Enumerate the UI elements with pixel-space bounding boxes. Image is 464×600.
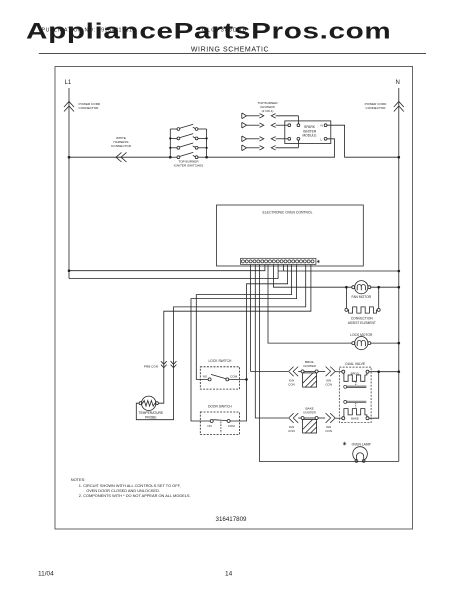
wire EOC to lock and door switch COM	[230, 265, 288, 422]
node bank rail row2 left	[169, 137, 171, 139]
connector IGN CON left of bake igniter	[289, 413, 299, 423]
connector PRB CON chevrons	[161, 361, 167, 368]
spark igniter module U1	[285, 121, 331, 144]
wire L1 vertical line	[68, 88, 70, 279]
igniter row 1	[242, 113, 299, 124]
resistor convection assist element	[345, 287, 380, 313]
wire module N to N line	[327, 125, 399, 157]
top burner igniters rows	[242, 113, 299, 151]
coil broil valve solenoid	[342, 370, 369, 381]
label temperature probe	[138, 411, 163, 419]
lamp oven lamp	[353, 447, 368, 463]
header publication text	[42, 28, 248, 34]
svg-text:LOCK SWITCH: LOCK SWITCH	[208, 359, 232, 363]
star mark oven lamp	[343, 442, 346, 446]
wire switch bank right rail	[206, 129, 208, 157]
wire EOC to lock motor	[268, 265, 352, 344]
svg-text:N: N	[396, 80, 400, 86]
label IGN CON left broil	[288, 379, 295, 387]
wire bake chevron to valve	[335, 417, 342, 419]
node bank rail row3 right	[206, 147, 208, 149]
svg-text:11/04: 11/04	[38, 571, 54, 578]
node valve right bus	[377, 370, 380, 373]
svg-text:WIRING SCHEMATIC: WIRING SCHEMATIC	[191, 47, 269, 54]
svg-text:CONNECTOR: CONNECTOR	[79, 106, 100, 110]
wire EOC to fan motor	[273, 265, 351, 288]
power cord connector right chevron	[394, 102, 404, 112]
svg-text:N: N	[321, 124, 323, 128]
node L1	[0, 0, 1, 1]
svg-text:PUBLICATION NO: 5995421981: PUBLICATION NO: 5995421981	[42, 28, 133, 34]
svg-text:CON: CON	[288, 429, 295, 433]
svg-text:OVEN LAMP: OVEN LAMP	[352, 442, 372, 446]
terminal strip of EOC	[241, 258, 316, 264]
svg-text:CONNECTOR: CONNECTOR	[111, 144, 132, 148]
svg-text:BROIL: BROIL	[351, 371, 360, 375]
wire EOC neutral feed to N line	[278, 265, 399, 272]
switch row 3	[170, 143, 206, 149]
node fan element left	[345, 286, 348, 289]
switch row 1	[170, 124, 206, 130]
svg-text:14: 14	[225, 571, 233, 578]
label IGN CON right broil	[325, 379, 332, 387]
power cord connector left chevron	[64, 102, 74, 112]
svg-text:COM: COM	[228, 424, 236, 428]
wire EOC to lock switch NO	[196, 265, 291, 380]
node N at spark module return	[398, 156, 401, 159]
igniter row 2	[242, 122, 288, 128]
node N at fan motor	[398, 286, 401, 289]
wire L1 branch 1 to EOC	[69, 265, 265, 271]
white harness connector chevrons	[116, 152, 127, 162]
motor M1 fan motor	[352, 281, 371, 294]
schematic frame	[55, 67, 413, 530]
connector IGN CON right of broil igniter	[326, 367, 336, 377]
label top burner igniter switches	[174, 160, 204, 168]
node bank rail row3 left	[169, 147, 171, 149]
svg-text:GLGF388DBB: GLGF388DBB	[202, 28, 247, 34]
bimetal arm bake	[344, 400, 367, 403]
wire EOC to oven lamp line	[259, 265, 398, 462]
heater bake igniter element	[298, 417, 325, 434]
svg-text:(2 OR 4): (2 OR 4)	[262, 109, 274, 113]
svg-text:ASSIST ELEMENT: ASSIST ELEMENT	[348, 321, 376, 325]
svg-text:CONVECTION: CONVECTION	[351, 316, 374, 320]
pin N terminal	[324, 124, 327, 127]
motor M2 lock motor	[352, 337, 371, 350]
svg-text:MODULE: MODULE	[302, 134, 317, 138]
wire L1 branch 2 to EOC	[69, 265, 278, 279]
svg-text:BAKE: BAKE	[351, 416, 359, 420]
igniter row 3	[242, 136, 288, 142]
switch row 4	[170, 152, 206, 158]
wire EOC to probe left lead	[136, 265, 305, 420]
switch S1 lock switch	[200, 367, 239, 389]
igniter row 4	[242, 140, 299, 150]
svg-text:NO: NO	[203, 375, 208, 379]
switch row 2	[170, 134, 206, 140]
wire N vertical line	[398, 88, 400, 461]
node bank left rail bottom	[169, 156, 172, 159]
pin L terminal	[324, 137, 327, 140]
svg-text:2. COMPONENTS WITH * DO NOT: 2. COMPONENTS WITH * DO NOT APPEAR ON AL…	[79, 493, 191, 498]
svg-text:L1: L1	[65, 80, 72, 86]
svg-text:PROBE: PROBE	[145, 415, 157, 419]
heater broil igniter element	[298, 370, 325, 387]
bimetal arm broil	[344, 385, 367, 388]
svg-text:COM: COM	[230, 375, 238, 379]
wire lock motor to N	[371, 342, 399, 344]
connector IGN CON left of broil igniter	[289, 367, 299, 377]
wire EOC to door switch NO	[191, 265, 297, 422]
svg-text:CONNECTOR: CONNECTOR	[366, 106, 387, 110]
label IGN CON right bake	[325, 425, 332, 433]
wire lock switch COM tap	[229, 378, 247, 380]
title underline	[39, 53, 426, 55]
label asterisk at strip	[317, 260, 320, 263]
node L1-branch junction	[68, 269, 71, 272]
label convection assist element	[348, 316, 376, 324]
node bank rail row2 right	[206, 137, 208, 139]
label bake igniter	[303, 407, 316, 415]
label spark igniter module	[302, 125, 317, 138]
svg-text:PRB CON: PRB CON	[144, 365, 158, 369]
op-amp U2 electronic oven control box	[217, 205, 364, 266]
mechanical link broil	[355, 382, 357, 386]
node bank right rail bottom	[205, 156, 208, 159]
svg-text:IGNITER: IGNITER	[303, 411, 316, 415]
node fan element right	[377, 286, 380, 289]
notes text block	[71, 477, 191, 498]
svg-text:CON: CON	[325, 429, 332, 433]
valve V1 dual valve box	[339, 367, 371, 423]
label power cord connector left	[79, 102, 101, 110]
coil bake valve solenoid	[342, 409, 369, 420]
wire EOC to bake igniter row	[255, 265, 288, 419]
node lock COM tap	[245, 378, 248, 381]
label top burner igniters (2 or 4)	[257, 101, 278, 113]
label IGN CON left bake	[288, 425, 295, 433]
wire EOC to probe right lead	[158, 265, 311, 404]
node N at valve	[398, 370, 401, 373]
node L1-bus junction	[68, 156, 71, 159]
switch bank: top burner igniter switches	[170, 124, 206, 158]
wire switch bank left rail	[169, 129, 171, 157]
node N	[0, 0, 1, 1]
wire valve right side to N	[369, 372, 399, 419]
svg-text:DUAL VALVE: DUAL VALVE	[345, 362, 366, 366]
wire fan motor to N line	[371, 286, 399, 288]
resistor temperature probe	[139, 396, 158, 410]
wire switch bank to module L	[207, 139, 335, 157]
mechanical link bake	[355, 403, 357, 408]
switch S2 door switch	[200, 412, 239, 435]
wire broil chevron to valve	[335, 371, 342, 373]
svg-text:NO: NO	[207, 424, 212, 428]
wire L1 main bus to switch bank	[69, 156, 170, 158]
svg-text:IGNITER SWITCHES: IGNITER SWITCHES	[174, 164, 204, 168]
svg-text:CON: CON	[325, 382, 332, 386]
svg-text:DOOR SWITCH: DOOR SWITCH	[208, 405, 232, 409]
node N at lock motor	[398, 342, 401, 345]
svg-text:ELECTRONIC OVEN CONTROL: ELECTRONIC OVEN CONTROL	[263, 210, 313, 214]
svg-text:CON: CON	[288, 382, 295, 386]
label power cord connector right	[365, 102, 387, 110]
svg-text:316417809: 316417809	[216, 516, 248, 523]
label white harness connector	[111, 136, 132, 148]
node N at EOC feed	[398, 270, 401, 273]
wire EOC to broil igniter row	[251, 265, 288, 372]
svg-text:NOTES:: NOTES:	[71, 477, 85, 482]
label broil igniter	[303, 360, 316, 368]
svg-text:IGNITER: IGNITER	[303, 364, 316, 368]
svg-text:FAN MOTOR: FAN MOTOR	[352, 295, 372, 299]
svg-text:L: L	[321, 137, 323, 141]
connector IGN CON right of bake igniter	[326, 413, 336, 423]
pin terminals left	[288, 124, 291, 127]
